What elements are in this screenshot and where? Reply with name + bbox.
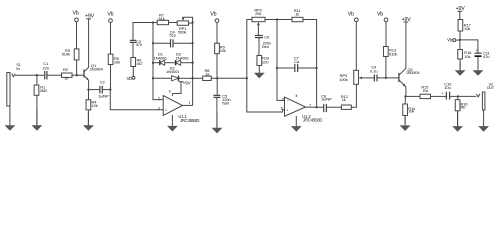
svg-text:1N4001: 1N4001: [166, 69, 180, 74]
capacitor C5 220n Tant: [213, 94, 230, 106]
node: [191, 62, 193, 64]
wire: [216, 54, 218, 79]
svg-text:Tant: Tant: [222, 101, 230, 106]
capacitor C6 220n Tant: [255, 35, 271, 50]
node: [191, 77, 193, 79]
wire: [216, 22, 218, 43]
wire: [459, 40, 461, 50]
svg-text:−: −: [287, 99, 289, 103]
node: [315, 106, 317, 108]
svg-text:Vb: Vb: [127, 76, 133, 81]
wire: [88, 90, 90, 100]
resistor R9 10k: [215, 43, 226, 54]
node: [152, 77, 154, 79]
wire: [351, 84, 356, 107]
potentiometer RP1 500k: [177, 17, 192, 34]
resistor R14 10k: [403, 104, 416, 116]
svg-text:510k: 510k: [62, 51, 70, 56]
wire: [87, 110, 89, 126]
wire feedback right vertical: [192, 23, 194, 106]
wire: [258, 38, 260, 56]
wire: [173, 42, 193, 44]
resistor R15 Ra: [420, 85, 431, 99]
ground: [291, 118, 302, 131]
svg-text:47u: 47u: [483, 54, 489, 59]
svg-text:1k: 1k: [205, 71, 209, 76]
wire U1.1 output: [183, 104, 193, 106]
svg-text:0.1u: 0.1u: [370, 68, 377, 73]
transistor Q1 2N3904: [84, 63, 104, 80]
svg-text:Vb: Vb: [447, 38, 453, 43]
node R1 tap: [36, 74, 38, 76]
node: [152, 42, 154, 44]
wire Q2 collector rail: [405, 22, 407, 68]
svg-text:Tant: Tant: [262, 44, 270, 49]
wire: [76, 22, 78, 49]
node C2/R5/pin3: [109, 88, 111, 90]
ground: [83, 112, 94, 131]
wire: [189, 22, 193, 24]
ground: [212, 112, 223, 133]
wire: [459, 59, 461, 70]
svg-text:+: +: [165, 108, 167, 112]
wire: [477, 57, 479, 71]
wire: [110, 22, 112, 54]
node: [315, 67, 317, 69]
svg-text:Vb: Vb: [210, 12, 216, 18]
svg-text:1k: 1k: [64, 76, 68, 81]
resistor R8 1k: [203, 68, 212, 80]
ground: [32, 110, 43, 131]
jack S2 OUT: [476, 82, 494, 110]
svg-text:Vb: Vb: [107, 11, 113, 17]
wire: [406, 95, 421, 97]
svg-text:1k: 1k: [295, 11, 299, 16]
resistor R12 1k: [341, 94, 351, 109]
wire: [298, 67, 317, 69]
ground: [5, 106, 16, 131]
svg-text:2: 2: [158, 96, 160, 100]
node emitter: [404, 95, 406, 97]
wire RP2 left leg: [247, 20, 252, 79]
resistor R16 Rb: [455, 100, 468, 111]
svg-text:6: 6: [282, 97, 284, 101]
svg-text:10u: 10u: [444, 85, 450, 90]
svg-text:1: 1: [189, 101, 191, 105]
svg-text:OUT: OUT: [487, 86, 495, 90]
svg-text:20k: 20k: [255, 11, 261, 16]
resistor R18 10k: [458, 50, 472, 60]
ground: [478, 110, 489, 132]
wire: [47, 74, 61, 76]
svg-text:Vb: Vb: [348, 12, 354, 18]
terminal Vb: [348, 12, 358, 22]
svg-text:+: +: [286, 108, 288, 112]
capacitor C10 10u: [441, 81, 452, 99]
node: [191, 21, 193, 23]
wire: [450, 95, 477, 97]
diode D1 1N4001: [154, 52, 168, 66]
wire U1.2 -input vertical: [277, 20, 285, 101]
node tone tap: [246, 77, 248, 79]
terminal Vb: [107, 11, 113, 22]
svg-text:10k: 10k: [220, 48, 226, 53]
wire Q1 collector rail: [88, 19, 90, 68]
wire: [265, 19, 292, 21]
wire: [132, 67, 134, 77]
wire feedback left vertical: [153, 23, 163, 100]
svg-text:10k: 10k: [92, 103, 98, 108]
op-amp U1.1 JRC4558D: [158, 89, 199, 123]
diode D2 1N4001: [166, 65, 180, 81]
wire diode row D2: [153, 77, 172, 79]
svg-text:100k: 100k: [339, 77, 347, 82]
svg-text:1N4001: 1N4001: [176, 55, 190, 60]
svg-text:5: 5: [281, 106, 283, 110]
svg-text:1u/NP: 1u/NP: [321, 97, 332, 102]
node: [152, 21, 154, 23]
terminal +9V: [402, 17, 412, 23]
svg-text:JRC4558D: JRC4558D: [180, 118, 199, 123]
ground: [167, 118, 178, 131]
wire: [179, 77, 193, 79]
node Q2 base: [385, 77, 387, 79]
svg-text:500k: 500k: [178, 29, 186, 34]
capacitor C8 1u/NP: [321, 94, 332, 113]
resistor R6 4k7: [131, 57, 144, 66]
svg-text:510k: 510k: [389, 51, 397, 56]
wire: [385, 22, 387, 47]
capacitor C2 1u/NP: [98, 79, 109, 98]
terminal Vb: [377, 12, 388, 22]
wire: [110, 65, 112, 90]
wire R11 right leg: [303, 20, 317, 69]
svg-text:+9V: +9V: [183, 80, 192, 85]
wire: [355, 22, 357, 71]
svg-text:22n: 22n: [43, 66, 49, 71]
resistor R5 10k: [108, 54, 120, 64]
wire to U1.2 +input: [247, 78, 285, 112]
wire: [459, 11, 461, 19]
wire: [89, 89, 100, 91]
wire: [72, 74, 84, 76]
ground: [452, 112, 463, 132]
wire U1.2 output: [306, 106, 317, 108]
svg-text:220: 220: [262, 59, 269, 64]
node Q1 base: [76, 74, 78, 76]
ground: [473, 60, 484, 76]
svg-text:51k: 51k: [159, 16, 165, 21]
node R16 tap: [457, 95, 459, 97]
capacitor C1 22n: [43, 61, 49, 79]
transistor Q2 2N3904: [399, 67, 420, 87]
wire: [431, 95, 447, 97]
wire: [165, 62, 176, 64]
resistor R4 10k: [86, 100, 98, 110]
svg-text:10k: 10k: [114, 59, 120, 64]
resistor R1 2M2: [34, 85, 48, 96]
wire Q2 emitter: [405, 87, 407, 97]
op-amp U1.2 JRC4558D: [281, 95, 323, 123]
wire: [385, 57, 387, 78]
wire C7 row: [277, 67, 295, 69]
wire top feedback row: [133, 23, 157, 41]
wire: [457, 96, 459, 99]
wire: [216, 97, 218, 128]
svg-text:10k: 10k: [464, 54, 470, 59]
wire: [459, 31, 461, 40]
terminal +9V: [456, 6, 466, 12]
svg-text:2N3904: 2N3904: [90, 66, 104, 71]
capacitor C7 Ca: [294, 55, 300, 72]
svg-text:47n: 47n: [136, 42, 142, 47]
node: [276, 67, 278, 69]
resistor R17 13k: [458, 20, 472, 32]
node: [276, 18, 278, 20]
svg-text:JRC4558D: JRC4558D: [303, 118, 322, 123]
terminal +9V: [85, 13, 95, 19]
terminal Vb: [72, 11, 78, 22]
capacitor C11 47u: [475, 48, 491, 59]
capacitor C3 47n: [130, 39, 142, 47]
ground: [455, 62, 466, 76]
wire: [316, 68, 318, 107]
node: [152, 62, 154, 64]
node: [191, 42, 193, 44]
svg-text:1N4001: 1N4001: [154, 55, 168, 60]
wire: [36, 95, 38, 125]
node C5 tap: [216, 77, 218, 79]
resistor R7 51k: [157, 13, 168, 25]
svg-text:4k7: 4k7: [137, 61, 144, 66]
wire: [211, 77, 247, 79]
svg-text:1u/NP: 1u/NP: [98, 94, 109, 99]
wire to op-amp +input: [110, 90, 163, 110]
ground: [400, 116, 411, 131]
svg-text:Vb: Vb: [72, 11, 78, 17]
svg-text:1k: 1k: [342, 97, 346, 102]
potentiometer RP3 100k: [339, 70, 374, 84]
wire: [377, 77, 399, 79]
capacitor C4 51p: [169, 29, 176, 47]
node Vb bias: [459, 39, 461, 41]
svg-text:IN: IN: [16, 67, 20, 71]
svg-text:+: +: [441, 91, 443, 95]
wire: [404, 96, 406, 104]
wire: [102, 89, 110, 91]
svg-text:2M2: 2M2: [40, 88, 48, 93]
wire: [132, 42, 134, 57]
svg-text:2N3904: 2N3904: [406, 70, 420, 75]
power +9V to U1.1: [172, 80, 191, 93]
wire: [15, 74, 44, 76]
wire: [460, 40, 478, 53]
node emitter/C2/R4: [87, 88, 89, 90]
diode D3 1N4001: [176, 52, 190, 66]
svg-text:10k: 10k: [408, 109, 414, 114]
potentiometer RP2 20k: [252, 8, 265, 36]
capacitor C9 0.1u: [370, 65, 377, 82]
wire: [216, 78, 218, 95]
resistor R3 510k: [62, 48, 79, 60]
terminal Vb: [210, 12, 219, 23]
resistor R11 1k: [292, 8, 303, 22]
wire Q1 emitter: [88, 80, 90, 89]
ground: [254, 66, 265, 79]
svg-text:51p: 51p: [169, 33, 176, 38]
terminal Vb: [447, 38, 460, 43]
wire: [36, 75, 38, 85]
terminal Vb: [127, 76, 135, 81]
svg-text:10k: 10k: [464, 26, 470, 31]
wire: [404, 116, 406, 125]
resistor R2 1k: [62, 67, 73, 81]
wire: [317, 106, 324, 108]
wire: [193, 77, 203, 79]
wire: [169, 22, 178, 24]
svg-text:+: +: [476, 48, 478, 52]
svg-text:Vb: Vb: [377, 12, 383, 18]
jack S1 IN: [7, 63, 21, 106]
wire: [76, 60, 78, 75]
wire C4 row: [153, 42, 171, 44]
resistor R13 510k: [383, 47, 397, 57]
svg-text:3: 3: [158, 107, 160, 111]
svg-text:−: −: [165, 98, 167, 102]
wire: [181, 62, 193, 64]
wire diode row D1 D3: [153, 62, 160, 64]
wire: [457, 111, 459, 126]
resistor R10 220: [257, 55, 270, 65]
wire: [326, 106, 341, 108]
